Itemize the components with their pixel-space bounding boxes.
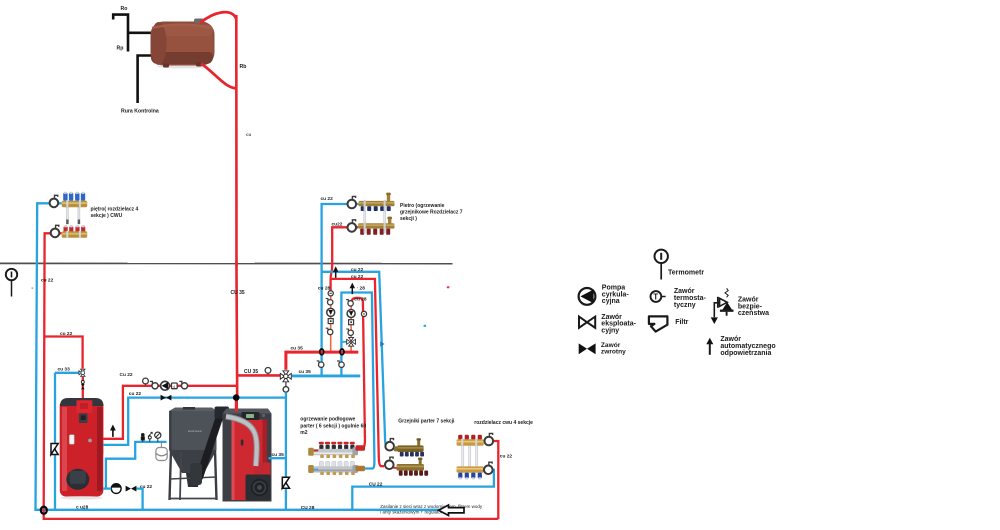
svg-text:grzejnikowe Rozdzielacz 7: grzejnikowe Rozdzielacz 7 [400,209,463,215]
legend safety valve [711,288,734,324]
boiler photo [223,409,272,502]
pipe Ro (black) [113,15,128,52]
svg-text:cu 22: cu 22 [129,391,142,397]
thermometer left [6,269,17,297]
svg-text:CU 28: CU 28 [301,505,315,511]
svg-text:sekcje ) CWU: sekcje ) CWU [91,213,123,219]
red cu28 elbow to floor supply [351,298,365,448]
thermostatic mixing valve tank [79,369,85,376]
expansion vessel symbol [156,442,167,461]
pump pietro upper [348,196,357,208]
svg-text:tyczny: tyczny [674,302,696,309]
svg-text:Ro: Ro [121,6,128,12]
meter square left chain [328,319,333,324]
vent ring below valve [285,382,287,387]
svg-text:Zasilanie z sieci wraz z wodom: Zasilanie z sieci wraz z wodomierzem, fi… [380,504,483,509]
blue main vertical to pietro pump [322,204,359,375]
svg-text:zwrotny: zwrotny [601,348,626,355]
radiator manifold photo [394,438,428,476]
meter square supply [172,383,178,389]
pump cwu upper [485,433,494,445]
pump supply [161,381,170,390]
red CU35 branch to mixing valve [237,374,280,377]
svg-text:cu 28: cu 28 [318,285,331,291]
pump tank bottom [111,484,121,494]
radiator manifold pump lower [385,457,394,469]
meter square right chain [349,320,354,325]
red link pump to radiator bar [392,467,397,468]
arrow up right chain [350,283,355,295]
svg-text:cu: cu [246,132,252,137]
blue horizontal to floor return [341,293,374,469]
pipe Rura Kontrolna (black) [138,56,153,104]
blue short tank to pump [104,487,112,489]
expansion vessel photo [151,19,215,69]
blue cwu line [352,470,494,510]
red valve to tank [82,377,84,402]
pipe Rp branch to tank [128,31,153,34]
legend auto vent [706,338,713,355]
safety group line [106,442,167,489]
svg-text:Pietro (ogrzewanie: Pietro (ogrzewanie [400,203,445,209]
svg-text:m2: m2 [300,430,307,436]
junction ring bottom [41,507,47,514]
svg-text:cu22: cu22 [332,221,343,227]
vent small [148,432,152,442]
svg-text:cu 22: cu 22 [500,454,513,460]
buffer tank photo [60,398,104,500]
svg-text:cyjny: cyjny [601,327,619,334]
legend filter [649,316,668,331]
pump lower-left manifold [51,225,60,237]
floor manifold photo [308,442,365,475]
svg-text:Termometr: Termometr [668,270,704,277]
boiler return stub [269,457,286,459]
red cwu line [484,441,499,519]
blue link pump to radiator bar [392,448,398,449]
svg-text:cyjna: cyjna [602,298,620,305]
bowtie tank bottom [126,486,137,492]
pressure gauge [155,432,161,442]
bowtie valve on boiler line [161,395,172,401]
svg-text:Filtr: Filtr [675,319,688,326]
blue cu22 boiler line [103,398,286,445]
arrow up on blue cu22 [333,266,338,278]
ball valve below junction 2 [337,361,344,368]
legend check valve [579,343,596,354]
stray red dot [447,286,450,288]
svg-text:Grzejniki parter 7 sekcji: Grzejniki parter 7 sekcji [398,419,455,425]
legend gate valve [579,317,595,328]
svg-text:CU 35: CU 35 [244,369,258,375]
left chain line [330,293,332,351]
thick red collector bar [286,352,358,370]
pump cwu lower [484,462,493,474]
svg-text:cu 22: cu 22 [351,274,364,280]
junction ellipse 2 [340,349,344,355]
ball valve supply 1 [150,381,158,388]
svg-text:kostrzewa: kostrzewa [188,429,202,433]
svg-text:Rura Kontrolna: Rura Kontrolna [121,109,159,115]
blue stub to star valve [342,341,347,343]
svg-text:cu 35: cu 35 [291,346,304,352]
red pietro return with curve [331,227,358,293]
svg-text:T: T [653,292,658,301]
bottom blue main cold line [36,509,442,510]
datum gray line [0,262,453,264]
red tank supply riser [103,386,237,439]
svg-text:· 28: · 28 [357,285,366,291]
lower CWU manifold photo (red tops) [62,225,87,238]
blue supply vertical left manifold [36,203,62,510]
svg-text:c u28: c u28 [76,505,89,511]
svg-text:cu 28: cu 28 [354,296,367,302]
blue boiler return vertical [285,392,287,510]
flow meter tubes left [66,208,80,225]
stray blue dot [424,325,427,327]
4-way mixing valve [280,371,291,382]
svg-text:Rp: Rp [117,46,124,52]
auger tube [190,407,229,486]
tiny mark [32,288,34,289]
vent circle on red slant [361,311,366,316]
ball valve left chain bottom [326,328,333,335]
svg-text:czeństwa: czeństwa [738,310,769,317]
pump pietro lower [348,220,357,232]
check circle left chain [328,291,333,296]
svg-text:Rb: Rb [240,64,247,70]
blue to bottom main [136,489,142,510]
cwu manifold photo [457,435,484,480]
red main into boiler [235,396,238,412]
blue vertical to junction bar [340,292,342,376]
pietro flow tubes [364,212,386,224]
bottom red main line [44,509,499,519]
svg-text:cu 35: cu 35 [272,452,285,458]
svg-text:sekcji ): sekcji ) [400,216,417,222]
svg-text:Cu 22: Cu 22 [120,372,133,378]
hourglass valve on blue left [51,444,58,455]
mixing star valve right chain [347,337,356,346]
main red riser CU35 vertical [235,15,238,398]
legend pump [579,288,596,305]
svg-text:rozdzielacz cwu 4 sekcje: rozdzielacz cwu 4 sekcje [474,420,533,426]
svg-text:piętro( rozdzielacz 4: piętro( rozdzielacz 4 [91,207,139,213]
svg-text:CU 22: CU 22 [369,481,383,487]
pump upper-left manifold [50,195,59,207]
radiator manifold pump upper [385,439,394,451]
svg-text:cu 22: cu 22 [60,331,73,337]
legend thermometer [655,250,668,280]
check valve small tank top [81,381,85,390]
svg-text:odpowietrzania: odpowietrzania [720,350,771,357]
arrow up tank [110,425,116,437]
red branch to mixing valve [45,337,83,369]
safety valve small [141,433,144,442]
svg-text:cu 35: cu 35 [299,369,312,375]
thermometer ring on branch [265,368,271,375]
junction ellipse 1 [320,349,324,355]
ball valve left chain top [326,299,333,306]
blue vertical with valve [54,373,56,510]
ball valve below junction 1 [317,361,324,368]
junction dot boiler top [233,394,240,401]
pipe Rb red curve top [200,12,236,23]
thick blue collector bar [292,374,361,377]
hourglass valve boiler return [282,477,289,488]
ball valve right chain bottom [346,329,353,336]
red cu22 horizontal to radiator return [331,279,384,466]
big flow arrow [439,505,464,516]
ball valve supply 2 [179,381,187,388]
svg-text:CU 35: CU 35 [231,290,245,296]
svg-text:cu 22: cu 22 [321,196,334,202]
pietro upper manifold photo [359,193,395,212]
pellet hopper photo [169,407,217,500]
svg-text:ogrzewanie podłogowe: ogrzewanie podłogowe [300,417,355,423]
svg-text:cu 22: cu 22 [41,278,54,284]
svg-text:parter ( 6 sekcji ) ogulnie 60: parter ( 6 sekcji ) ogulnie 60 [300,423,366,429]
flex feed tube [226,417,257,467]
blue cold feed to mixing valve [55,372,80,374]
thermometer ring supply [143,378,149,386]
svg-text:4: 4 [173,385,175,389]
pump left chain [327,308,335,316]
svg-text:cu 33: cu 33 [58,367,71,373]
ball valve right chain top [346,300,353,307]
red return vertical left manifold [44,233,62,510]
svg-text:i anty skażeniowym + regulator: i anty skażeniowym + regulator [380,510,442,515]
upper CWU manifold photo (blue caps) [62,192,87,208]
pietro lower manifold photo [358,217,395,235]
blue cu22 horizontal to radiator supply [322,272,388,448]
right chain line [350,303,352,351]
pump right chain [347,310,355,318]
pipe Rb red curve bottom [201,64,236,89]
blue flow arrow marker [380,342,384,347]
red riser over gray line [235,262,238,267]
legend thermostatic valve [651,291,666,302]
svg-text:cu 22: cu 22 [351,267,364,273]
